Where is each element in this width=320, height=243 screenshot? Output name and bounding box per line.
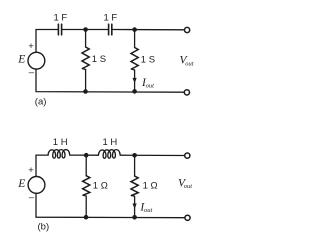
wire C2 to node B and to output terminal	[112, 29, 184, 31]
svg-text:out: out	[184, 183, 193, 190]
resistor R1' (1 ohm) zigzag	[83, 176, 90, 196]
svg-text:1 Ω: 1 Ω	[143, 180, 158, 191]
capacitor C1 (1 F)	[58, 24, 61, 35]
svg-text:out: out	[185, 61, 194, 68]
svg-text:1 F: 1 F	[104, 13, 118, 24]
node B bottom (junction dot)	[132, 89, 137, 94]
svg-text:out: out	[144, 207, 153, 214]
svg-text:1 F: 1 F	[54, 13, 68, 24]
node B (junction dot, top)	[132, 27, 137, 32]
inductor L2 (1 H)	[98, 150, 120, 159]
node A bottom (junction dot)	[83, 89, 88, 94]
svg-text:–: –	[29, 67, 35, 78]
resistor R2' (1 ohm) zigzag	[131, 176, 138, 196]
svg-text:–: –	[29, 192, 35, 203]
svg-text:E: E	[17, 178, 25, 190]
svg-text:out: out	[146, 83, 155, 90]
inductor L1 (1 H)	[48, 150, 70, 159]
capacitor C2 (1 F)	[109, 24, 112, 35]
resistor R1 lead bottom	[82, 69, 85, 92]
resistor R2 (1 S) lead top	[134, 30, 136, 48]
voltage source E (b)	[28, 177, 45, 194]
svg-text:1 H: 1 H	[103, 137, 118, 148]
output terminal top (b)	[185, 153, 190, 158]
output terminal bottom (b)	[185, 215, 190, 220]
resistor R1 (1 S) zigzag	[82, 47, 89, 69]
resistor R1' lead bottom	[83, 195, 86, 217]
resistor R1 (1 S) lead top	[85, 30, 87, 48]
node B' (junction dot, top)	[132, 153, 137, 158]
node A (junction dot, top)	[83, 27, 88, 32]
resistor R2' (1 ohm) lead top	[134, 155, 136, 176]
svg-text:(b): (b)	[38, 221, 50, 232]
resistor R2 lead bottom with I_out arrow	[131, 69, 134, 91]
resistor R2' lead bottom with I_out arrow	[131, 196, 134, 218]
node B' bottom (junction dot)	[132, 215, 137, 220]
output terminal bottom (a)	[184, 90, 189, 95]
wire source bottom to ground rail	[36, 69, 185, 92]
node A' bottom (junction dot)	[84, 215, 89, 220]
output terminal top (a)	[185, 27, 190, 32]
voltage source E (a)	[28, 52, 45, 69]
svg-text:+: +	[28, 165, 34, 176]
wire C1 to node A	[62, 29, 108, 31]
resistor R1' (1 ohm) lead top	[85, 155, 87, 176]
wire L2 to node B' and to output terminal	[120, 154, 185, 156]
node A' (junction dot, top)	[84, 153, 89, 158]
wire L1 to node A'	[70, 154, 99, 156]
svg-text:(a): (a)	[35, 96, 47, 107]
wire top-left: source to capacitor C1	[36, 30, 58, 53]
svg-text:1 S: 1 S	[141, 55, 155, 66]
svg-text:1 Ω: 1 Ω	[93, 180, 108, 191]
svg-text:+: +	[28, 41, 34, 52]
wire source bottom to ground rail (b)	[36, 193, 185, 217]
svg-text:1 S: 1 S	[92, 54, 106, 65]
svg-text:1 H: 1 H	[53, 137, 68, 148]
resistor R2 (1 S) zigzag	[131, 48, 138, 70]
arrowhead I_out (b)	[133, 204, 137, 209]
svg-text:E: E	[17, 54, 25, 66]
wire top-left: source to inductor L1	[36, 155, 48, 176]
arrowhead I_out (a)	[133, 78, 137, 83]
